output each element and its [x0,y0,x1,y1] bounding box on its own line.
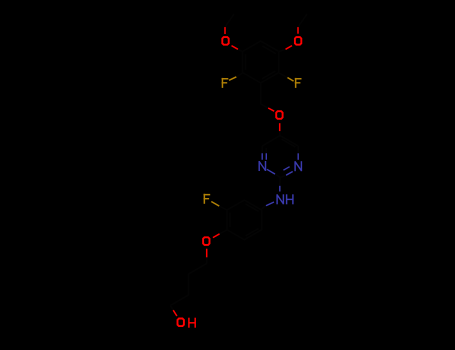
pyrimidine ring dark edges C4-C5-C6 [262,136,298,147]
atom label NH nitrogen (amine bridge) [277,194,283,204]
bond N1=C2 main dark half [280,175,286,177]
bond NH-aniline dark half [262,206,266,209]
bond O4-aniline dark half [220,230,227,234]
bond O1-ring dark half [238,49,243,51]
bond F3-aniline dark half [219,206,227,210]
atom label O1 (left methoxy O) [222,37,228,45]
bond C2-NH blue half [279,186,281,192]
atom label F2 (right F on top ring) [295,78,302,88]
aniline aromatic inner lines [230,204,259,236]
bond O3-C5pyrimidine dark half [279,131,281,135]
atom label NH hydrogen [287,194,293,204]
bond CH2-O3 red half [268,108,274,111]
bond N3-C2 dark half [275,174,280,177]
bond C6-N1 blue half [297,153,299,160]
bond N1=C2 main blue half [286,172,293,176]
bond O2-ring dark half [279,49,286,51]
methyl bond (right OMe, faint) [298,14,307,27]
bond O1-ring red half [232,46,239,50]
bond C2-NH dark half [279,178,281,186]
bond C4-OH red half [173,310,177,316]
bond C6-N1 dark half [297,146,299,153]
methyl bond (left OMe, faint) [225,14,234,27]
atom label N1 (pyrimidine right N) [295,161,301,171]
bond F1-ring olive half [229,77,236,81]
bond F3-aniline olive half [211,202,219,207]
atom label F1 (left F on top ring) [222,78,229,88]
bond ring-CH2 (benzylic, dark) [260,83,262,104]
bond CH2-O3 dark half [261,104,269,108]
bond F2-ring olive half [287,78,293,82]
bond N3-C2 blue half [267,169,275,174]
atom label O3 (benzyl ether O) [276,111,282,119]
bond O4-aniline red half [213,234,220,238]
chain bond C2-C3 (dark) [188,274,190,295]
atom label OH hydrogen [189,318,195,328]
bond O2-CH3 red half (right methoxy stub up) [297,27,299,34]
atom label OH oxygen (terminal hydroxyl) [178,319,184,327]
top benzene aromatic inner lines [246,46,276,79]
chain bond C1-C2 (dark) [189,264,207,275]
bond O4-chain dark half [206,257,208,263]
atom label F3 (aniline F) [204,194,211,204]
bond O4-chain red half (down) [206,249,208,258]
bond C4-OH dark half [170,306,173,311]
bond NH-aniline blue half [266,202,274,206]
bond C4=N3 blue halves (double bond above left N) [262,153,266,160]
chain bond C3-C4 (dark) [170,295,188,306]
top benzene ring (carbon skeleton, near-black) [243,41,279,83]
pyrimidine C5=C6 inner line (dark) [282,139,296,147]
bond C4=N3 dark halves [262,146,266,153]
bond O3-C5pyrimidine red half [279,123,281,131]
bond F1-ring dark half [236,73,242,77]
bond O2-ring red half [286,46,293,50]
atom label O4 (aniline ether O) [203,237,209,245]
bond N1=C2 inner blue line [283,167,289,171]
atom label O2 (right methoxy O) [295,37,301,45]
atom label N3 (pyrimidine left N) [259,161,265,171]
bond F2-ring dark half [279,73,288,78]
bond O1-CH3 red half (left methoxy stub up) [224,27,226,34]
aniline benzene ring (dark) [227,200,262,240]
